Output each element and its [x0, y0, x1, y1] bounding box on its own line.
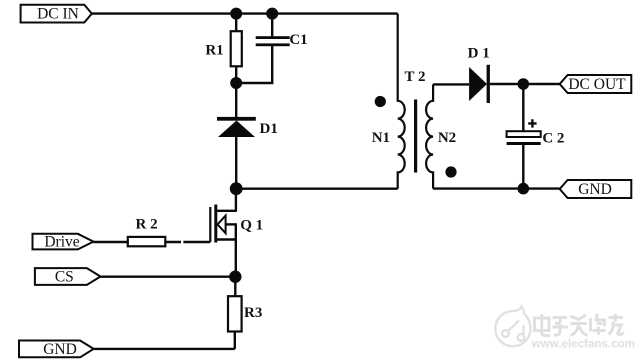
diode D1 (clamp) [217, 117, 256, 137]
svg-text:DC OUT: DC OUT [568, 76, 626, 93]
wire C2 bottom to ground rail [522, 145, 524, 189]
flag DC OUT [560, 75, 632, 93]
phase dot N2 [445, 166, 456, 177]
plus polarity mark C2 [528, 119, 536, 127]
svg-text:R3: R3 [244, 305, 262, 321]
wire C1 bottom to node [236, 46, 272, 83]
svg-text:D 1: D 1 [468, 46, 490, 62]
wire CS to Q1 source node [101, 276, 236, 278]
svg-text:GND: GND [578, 181, 612, 198]
wire GND rail bottom left [94, 348, 235, 350]
junction output node [518, 78, 530, 90]
wire node to D1 cathode [235, 83, 237, 117]
flag CS [35, 268, 101, 285]
svg-text:R1: R1 [205, 43, 223, 59]
svg-text:C 2: C 2 [542, 130, 564, 146]
svg-text:DC IN: DC IN [37, 6, 79, 23]
phase dot N1 [375, 96, 386, 107]
wire secondary top to output diode [433, 83, 469, 85]
capacitor C1 [256, 36, 290, 46]
flag DC IN [21, 5, 92, 23]
Q1 drain stub [216, 210, 237, 212]
wire Drive to R2 [93, 241, 127, 243]
svg-text:N2: N2 [438, 130, 456, 146]
svg-text:T 2: T 2 [405, 69, 426, 85]
wire output node to C2 top [522, 84, 524, 131]
Q1 source stub [216, 238, 237, 240]
svg-text:Drive: Drive [44, 234, 79, 251]
Q1 body arrow [218, 216, 226, 234]
junction ground node right [518, 183, 530, 195]
wire top rail [92, 12, 398, 14]
svg-text:CS: CS [55, 269, 74, 286]
wire R3 bottom to ground [234, 332, 236, 349]
svg-text:D1: D1 [260, 121, 278, 137]
wire switch node to transformer primary bottom [236, 187, 398, 189]
wire R2 to Q1 gate [165, 241, 210, 243]
svg-text:Q 1: Q 1 [240, 218, 263, 234]
Q1 gate line [209, 207, 211, 242]
Q1 source vertical [235, 224, 237, 276]
wire switch node to Q1 drain [235, 189, 237, 211]
wire source node to R3 [234, 277, 236, 297]
transformer T2 primary winding N1 [398, 14, 405, 189]
capacitor C2 polarized [507, 131, 541, 145]
watermark logo circle [495, 307, 530, 347]
Q1 body stub [226, 223, 237, 225]
resistor R3 [228, 296, 242, 331]
wire R1 bottom to node [235, 66, 237, 83]
Q1 channel line [214, 205, 217, 243]
wire R1 top drop [235, 14, 237, 32]
junction source node [229, 271, 241, 283]
wire C1 top drop [271, 14, 273, 37]
wire output diode to DC OUT [490, 83, 560, 85]
wire secondary bottom ground rail [433, 187, 560, 189]
flag GND left [19, 341, 94, 359]
transformer T2 core [414, 100, 417, 173]
svg-text:www.elecfans.com: www.elecfans.com [531, 337, 635, 350]
transformer T2 secondary winding N2 [426, 84, 433, 188]
junction switch node [230, 182, 243, 195]
svg-text:C1: C1 [289, 32, 307, 48]
svg-text:GND: GND [43, 341, 77, 358]
junction node R1/C1 bottom [230, 77, 242, 89]
resistor R1 [231, 31, 242, 66]
junction node top C1 [266, 8, 278, 20]
wire D1 anode to switch node [235, 137, 237, 189]
transistor Q1 MOSFET [210, 205, 237, 277]
flag GND right [560, 180, 632, 198]
svg-text:R 2: R 2 [136, 216, 158, 232]
junction node top R1 [230, 8, 242, 20]
diode D1 (output rectifier) [469, 65, 490, 103]
svg-text:N1: N1 [372, 130, 390, 146]
flag Drive [33, 234, 94, 251]
watermark CJK text 电子发烧友 (approximated) [535, 314, 624, 336]
resistor R2 [128, 237, 166, 246]
